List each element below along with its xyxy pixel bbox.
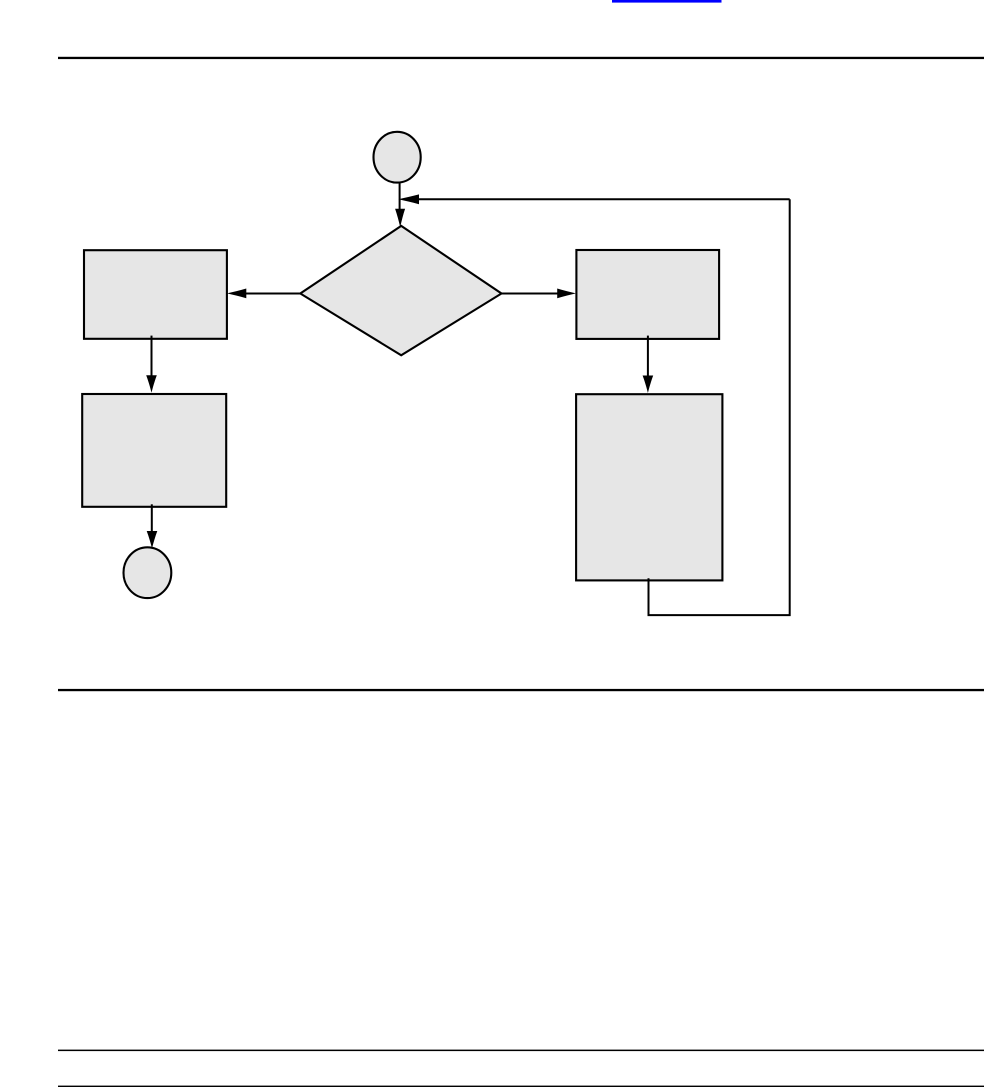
arrowhead into end circle xyxy=(147,531,158,548)
process box left 2 xyxy=(82,394,226,507)
wire: diamond right vertex to right arrow xyxy=(502,293,559,295)
process box left 1 xyxy=(84,250,227,339)
wire: loop return horizontal into junction xyxy=(419,198,790,200)
wire: box left 2 down to end circle xyxy=(151,504,153,534)
section rule (middle) xyxy=(58,689,984,691)
arrowhead into diamond top xyxy=(395,209,405,228)
process box right 2 (tall) xyxy=(576,394,722,580)
wire: box left 1 down xyxy=(151,336,153,379)
arrowhead into left process box (pointing left) xyxy=(227,289,246,299)
wire: start circle to decision diamond xyxy=(399,183,401,212)
arrowhead into process box left 2 xyxy=(146,375,157,393)
arrowhead into junction (pointing left) xyxy=(398,194,419,204)
start circle xyxy=(374,132,421,183)
arrowhead into process box right 2 xyxy=(643,376,654,394)
header rule xyxy=(58,57,984,59)
arrowhead into right process box (pointing right) xyxy=(557,289,576,299)
footer rule lower (clipped at page bottom) xyxy=(58,1086,984,1087)
wire: box right 1 down xyxy=(647,336,649,379)
footer rule upper xyxy=(58,1050,984,1052)
wire: diamond left vertex to left arrow xyxy=(246,293,301,295)
end circle xyxy=(123,547,171,598)
decision diamond xyxy=(300,226,501,355)
wire: loop from box right 2 bottom, down then right then up xyxy=(649,199,790,615)
process box right 1 xyxy=(576,250,719,339)
hyperlink underline (clipped at page top) xyxy=(612,0,722,3)
